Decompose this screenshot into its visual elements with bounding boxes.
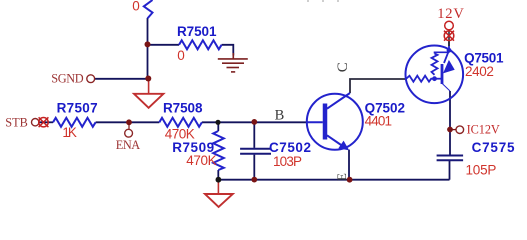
svg-text:B: B: [275, 108, 285, 124]
svg-text:2402: 2402: [465, 64, 494, 79]
svg-text:C7575: C7575: [472, 140, 515, 155]
svg-text:R7501: R7501: [177, 24, 217, 39]
svg-text:C: C: [335, 62, 351, 72]
svg-text:0: 0: [177, 48, 185, 63]
svg-text:ENA: ENA: [116, 138, 141, 152]
svg-text:STB: STB: [5, 115, 28, 129]
svg-text:470K: 470K: [186, 153, 216, 168]
svg-text:E: E: [334, 173, 349, 181]
svg-text:C7502: C7502: [269, 140, 311, 155]
svg-text:0: 0: [132, 0, 140, 13]
svg-text:470K: 470K: [165, 127, 195, 142]
svg-text:105P: 105P: [466, 162, 497, 177]
svg-text:SGND: SGND: [51, 72, 84, 86]
svg-text:IC12V: IC12V: [467, 122, 500, 136]
svg-text:103P: 103P: [273, 154, 302, 169]
svg-text:R7508: R7508: [163, 100, 203, 115]
svg-text:4401: 4401: [365, 113, 392, 128]
svg-text:1K: 1K: [62, 125, 77, 140]
svg-text:12V: 12V: [437, 6, 464, 22]
svg-text:R7507: R7507: [57, 101, 98, 116]
